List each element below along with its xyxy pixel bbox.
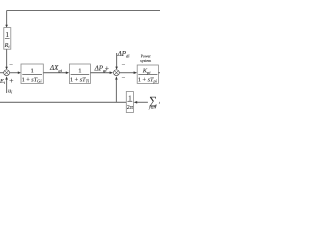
summing junction S2 xyxy=(114,70,120,76)
block 1/(2pi) xyxy=(126,92,134,113)
wire: S2 output to power system block xyxy=(120,71,138,74)
svg-text:−: − xyxy=(122,61,126,68)
svg-text:−: − xyxy=(9,62,13,69)
block power system K_pi/(1+sT_pi) xyxy=(137,65,158,84)
wire: vertical drop from top line into 1/R block xyxy=(5,11,8,28)
block turbine 1/(1+sT_Ti) xyxy=(69,64,90,84)
wire: long bottom line to left edge xyxy=(0,101,126,103)
wire: from summation into 1/(2pi) block (arrow points left) xyxy=(134,101,148,104)
wire: governor to turbine xyxy=(43,71,69,74)
svg-text:system: system xyxy=(140,59,151,63)
svg-text:+: + xyxy=(105,64,109,73)
label summation sum_{j in N} xyxy=(148,95,157,110)
wire: S1 output to governor block xyxy=(10,71,21,74)
svg-text:−: − xyxy=(122,75,126,82)
wire: dP_di load disturbance input from above into S2 xyxy=(115,53,118,70)
wire: top feedback line xyxy=(7,10,160,12)
svg-text:1: 1 xyxy=(78,68,81,75)
wire: 1/R block down to summing junction S1 xyxy=(5,49,8,70)
wire: E_i input from left edge into S1 xyxy=(0,72,4,74)
wire: tie-line feedback from below into S2 xyxy=(115,76,118,102)
summing junction S1 xyxy=(4,70,10,76)
wire: power system output to right edge xyxy=(158,72,160,74)
svg-text:+: + xyxy=(9,76,13,85)
svg-text:1: 1 xyxy=(30,68,33,75)
block governor 1/(1+sT_Gi) xyxy=(21,64,43,84)
svg-text:j∈N: j∈N xyxy=(148,104,157,109)
svg-text:1: 1 xyxy=(5,32,8,39)
wire: turbine to summing junction S2 xyxy=(90,71,113,74)
svg-text:2π: 2π xyxy=(127,104,134,111)
wire: u_i input from below into S1 xyxy=(5,76,8,93)
svg-text:Δ: Δ xyxy=(158,100,160,106)
block 1/R_i (droop) xyxy=(4,28,11,50)
